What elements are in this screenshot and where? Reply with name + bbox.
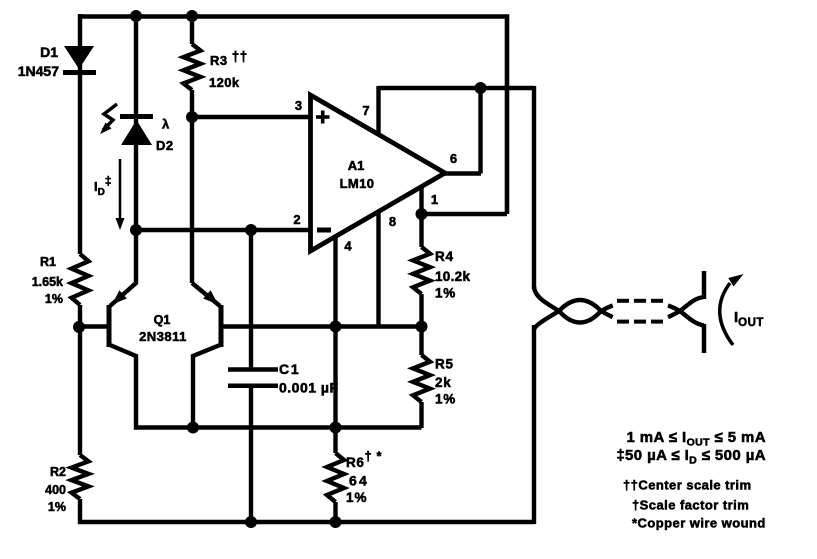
svg-text:8: 8 — [389, 214, 396, 229]
svg-text:4: 4 — [344, 239, 352, 254]
svg-text:†Scale factor trim: †Scale factor trim — [632, 498, 749, 513]
svg-text:2k: 2k — [435, 375, 452, 390]
svg-text:1%: 1% — [48, 500, 66, 514]
svg-text:120k: 120k — [209, 75, 240, 90]
svg-text:C1: C1 — [279, 361, 301, 377]
svg-text:††Center scale trim: ††Center scale trim — [623, 478, 752, 493]
svg-text:64: 64 — [349, 473, 369, 489]
svg-text:LM10: LM10 — [340, 176, 375, 191]
svg-text:1N457: 1N457 — [18, 63, 59, 79]
svg-text:1%: 1% — [435, 286, 456, 301]
svg-text:0.001 µF: 0.001 µF — [279, 380, 339, 396]
svg-text:D2: D2 — [156, 138, 174, 153]
svg-text:*Copper wire wound: *Copper wire wound — [632, 516, 766, 531]
svg-text:2: 2 — [293, 212, 300, 227]
svg-text:7: 7 — [362, 103, 369, 118]
svg-text:R5: R5 — [435, 357, 454, 372]
svg-text:6: 6 — [450, 151, 457, 166]
svg-text:3: 3 — [295, 98, 302, 113]
svg-text:A1: A1 — [348, 158, 365, 173]
svg-text:2N3811: 2N3811 — [139, 329, 187, 344]
svg-text:Q1: Q1 — [154, 313, 171, 327]
svg-text:λ: λ — [162, 117, 170, 132]
svg-text:1: 1 — [431, 192, 438, 207]
svg-text:R1: R1 — [40, 255, 56, 269]
svg-text:1%: 1% — [435, 392, 456, 407]
svg-text:R2: R2 — [50, 465, 66, 479]
svg-text:R4: R4 — [435, 249, 454, 264]
svg-text:10.2k: 10.2k — [435, 269, 470, 284]
svg-text:1.65k: 1.65k — [32, 275, 63, 289]
svg-text:1%: 1% — [346, 490, 368, 505]
svg-text:400: 400 — [45, 483, 66, 497]
svg-text:D1: D1 — [40, 44, 58, 60]
svg-text:1%: 1% — [45, 292, 63, 306]
